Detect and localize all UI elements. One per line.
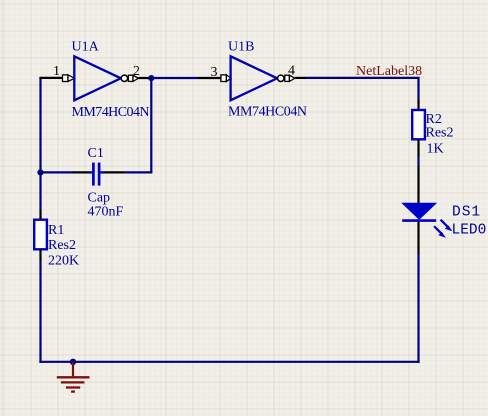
svg-text:4: 4 [288,64,295,79]
wire: net from pin1 down left side to R1 [39,78,62,210]
wire: pin2 to junction [138,77,149,79]
resistor R1 body [34,220,47,250]
svg-text:DS1: DS1 [452,205,481,221]
wire: R1 down to bottom rail [39,261,41,363]
svg-text:Res2: Res2 [426,126,454,141]
ground symbol [57,362,90,392]
svg-text:Cap: Cap [88,191,111,206]
svg-text:U1A: U1A [72,40,100,55]
wire: junction to pin3 [149,77,221,79]
capacitor C1 right wire [105,171,153,173]
wire: junction down to capacitor [150,78,152,172]
svg-text:MM74HC04N: MM74HC04N [228,105,307,120]
wire: pin4 to R2 corner [295,78,420,110]
LED emission arrow 2 [434,226,446,238]
svg-text:MM74HC04N: MM74HC04N [72,105,150,120]
pin 4 output arrow symbol [285,75,295,81]
svg-text:NetLabel38: NetLabel38 [356,64,422,79]
LED DS1 diode triangle [403,204,435,219]
svg-text:R1: R1 [48,223,64,238]
svg-text:470nF: 470nF [88,205,124,220]
R1 pin stubs [39,210,41,262]
svg-text:2: 2 [133,64,140,79]
pin 3 of U1B (input arrow symbol) [221,75,231,82]
capacitor C1 plates [89,163,105,186]
pin 1 of U1A (input arrow symbol) [63,75,75,82]
op-amp U1B inverter triangle [231,56,278,100]
op-amp U1A inverter triangle [74,56,121,100]
resistor R2 body [412,110,425,139]
node junction at pin2 net [148,75,154,81]
wire: LED down to bottom rail [417,222,419,363]
node junction at C1 left [37,169,43,175]
svg-text:C1: C1 [88,146,104,161]
svg-text:1K: 1K [427,142,444,157]
wire: bottom ground rail [39,361,419,363]
LED DS1 cathode bar [402,219,436,222]
capacitor C1 left wire [41,171,90,173]
pin 4 of U1B: inversion bubble [278,75,284,81]
svg-text:1: 1 [53,64,60,79]
wire: R2 to LED [417,139,419,204]
svg-text:LED0: LED0 [452,223,487,239]
node junction at ground [70,359,76,365]
pin 2 of U1A: inversion bubble [121,75,127,81]
svg-text:Res2: Res2 [48,238,76,253]
svg-text:U1B: U1B [228,40,254,55]
svg-text:3: 3 [211,65,218,80]
pin 2 output arrow symbol [128,75,138,81]
svg-text:220K: 220K [48,254,79,269]
LED emission arrow 1 [441,220,453,232]
